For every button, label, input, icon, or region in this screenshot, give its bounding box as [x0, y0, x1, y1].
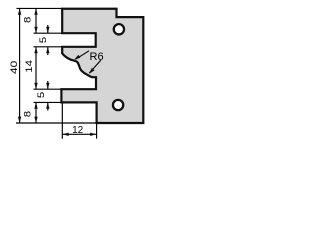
- svg-text:40: 40: [9, 61, 20, 74]
- dimension 14 line: [35, 47, 37, 89]
- knife plate profile: [61, 9, 143, 123]
- hole top: [114, 24, 124, 34]
- dimension 12 line: [62, 133, 96, 135]
- svg-text:5: 5: [39, 37, 49, 44]
- svg-text:8: 8: [23, 111, 33, 118]
- extension line bottom (y=123): [16, 122, 97, 124]
- extension line 12 right (vertical): [96, 123, 98, 138]
- svg-text:12: 12: [72, 125, 84, 136]
- leader arrow R6 lower: [89, 60, 101, 73]
- dimension 5 top arrows (outside): [47, 25, 49, 33]
- svg-text:R6: R6: [90, 51, 104, 63]
- svg-text:5: 5: [37, 92, 47, 99]
- dimension 8 top line: [35, 8, 37, 33]
- extension line slot1 top: [34, 32, 63, 34]
- dimension 5 bottom arrows (outside): [47, 81, 49, 89]
- hole bottom: [113, 100, 123, 110]
- extension line slot1 bottom: [34, 46, 63, 48]
- extension line top (y=8.4): [17, 7, 63, 9]
- svg-text:8: 8: [23, 16, 33, 23]
- extension line 12 left (vertical): [61, 103, 63, 139]
- extension line tab top: [34, 88, 62, 90]
- dimension 40 line: [19, 8, 21, 123]
- leader arrow R6 upper: [76, 51, 90, 60]
- dimension 8 bottom line: [35, 102, 37, 123]
- extension line tab bottom: [34, 101, 62, 103]
- svg-text:14: 14: [25, 60, 35, 73]
